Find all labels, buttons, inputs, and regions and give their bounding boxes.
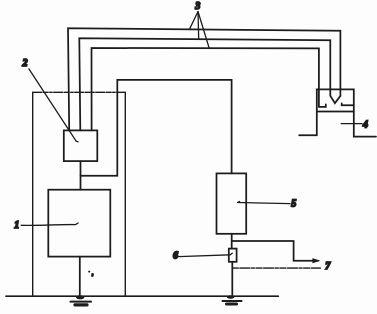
wire resistor 6 to ground xyxy=(231,262,233,297)
leader line for 4 xyxy=(341,123,362,125)
svg-text:7: 7 xyxy=(325,261,331,272)
svg-text:5: 5 xyxy=(291,198,296,209)
ground bus line xyxy=(6,295,278,297)
wire block 1 to ground xyxy=(79,257,81,297)
leader line for 2 xyxy=(29,69,78,142)
svg-text:2: 2 xyxy=(22,58,28,69)
svg-text:1: 1 xyxy=(14,220,19,231)
enclosure frame (outer dashed rectangle) xyxy=(33,92,126,296)
svg-text:4: 4 xyxy=(362,120,368,131)
svg-text:6: 6 xyxy=(173,250,178,261)
spark-gap unit 4: right contact xyxy=(342,103,354,105)
wire leader from 3 to bus line 3 xyxy=(198,12,209,49)
wire tap to arrow 7 xyxy=(232,241,318,261)
svg-text:3: 3 xyxy=(194,1,200,12)
leader line for 1 xyxy=(21,223,78,225)
spark-gap unit 4: top edge xyxy=(317,89,376,136)
stray tick mark xyxy=(88,271,90,273)
wire leader from 3 to bus line 2 xyxy=(197,12,200,40)
ground symbol under block 1 xyxy=(71,295,92,305)
block 5 xyxy=(217,173,247,233)
wire block 2 to block 1 xyxy=(80,161,82,190)
block 2 xyxy=(64,130,98,161)
leader line for 5 xyxy=(238,202,290,204)
spark-gap unit 4: inner shelf xyxy=(317,111,354,113)
spark-gap unit 4: left leg and foot xyxy=(299,112,317,136)
wire leader from 3 to bus line 1 xyxy=(190,12,199,30)
block 1 xyxy=(48,190,110,257)
spark-gap unit 4: left contact xyxy=(319,104,326,107)
wire bus line 1 (top horizontal) xyxy=(68,28,340,130)
wire bus line 3 (bottom horizontal) xyxy=(92,48,319,130)
spark-gap unit 4: V electrode xyxy=(330,96,340,103)
wire lower dashed output xyxy=(232,267,320,269)
wire bus line 2 (middle horizontal) xyxy=(79,38,330,130)
ground symbol under resistor 6 xyxy=(223,295,242,304)
arrowhead 7 xyxy=(312,258,320,263)
wire block 5 to resistor 6 xyxy=(231,234,233,249)
resistor 6 (small box) xyxy=(229,249,237,262)
wire jog from block-2 wire to riser xyxy=(81,80,232,176)
leader line for 6 xyxy=(179,253,233,256)
